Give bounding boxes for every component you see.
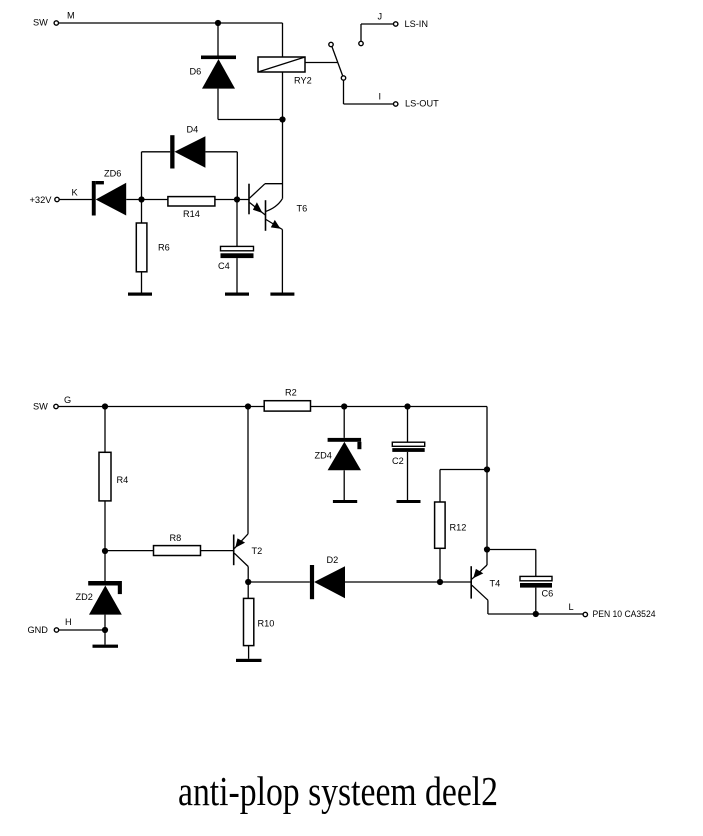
svg-text:ZD4: ZD4 (315, 451, 332, 461)
wire R4 top (104, 407, 106, 453)
capacitor C2 (392, 407, 424, 504)
resistor R8 (154, 546, 201, 556)
switch fixed contact (359, 41, 363, 45)
capacitor C6 (487, 550, 552, 615)
svg-text:LS-OUT: LS-OUT (405, 99, 439, 109)
svg-text:D6: D6 (190, 67, 202, 77)
svg-text:SW: SW (33, 18, 48, 28)
node R4 top (102, 403, 108, 409)
wire (236, 152, 238, 200)
wire (361, 23, 393, 25)
svg-text:R12: R12 (450, 523, 467, 533)
node R14/D4/C4/T6 junction (234, 196, 240, 202)
svg-text:GND: GND (28, 625, 49, 635)
resistor R2 (264, 401, 310, 411)
svg-text:K: K (72, 188, 79, 198)
node C2 top (404, 403, 410, 409)
svg-text:R10: R10 (258, 619, 275, 629)
switch pivot (341, 76, 345, 80)
resistor R10 (244, 598, 254, 645)
svg-text:PEN 10 CA3524: PEN 10 CA3524 (593, 609, 656, 619)
wire (360, 24, 362, 41)
terminal G (SW bottom) (54, 404, 58, 408)
wire (105, 550, 154, 552)
transistor T4 (471, 565, 488, 600)
wire (59, 22, 218, 24)
svg-text:T2: T2 (252, 546, 263, 556)
wire T4 collector (487, 600, 489, 614)
wire (248, 581, 310, 583)
wire (218, 22, 283, 24)
capacitor C4 (221, 246, 254, 258)
wire (218, 119, 283, 121)
terminal J (LS-IN) (394, 22, 398, 26)
wire (343, 80, 345, 104)
svg-text:C6: C6 (542, 589, 554, 599)
wire (282, 23, 284, 57)
transistor T6 (darlington) (249, 184, 283, 231)
wire T2 collector (247, 567, 249, 599)
switch arm contact (329, 42, 333, 46)
wire D4 branch left (141, 152, 143, 200)
svg-text:LS-IN: LS-IN (405, 19, 429, 29)
svg-text:SW: SW (33, 402, 48, 412)
wire (248, 646, 250, 659)
wire (345, 581, 471, 583)
svg-text:G: G (64, 395, 71, 405)
node R12/D2/T4 junction (437, 579, 443, 585)
svg-text:J: J (378, 12, 383, 22)
svg-text:C2: C2 (392, 456, 404, 466)
wire (126, 199, 168, 201)
resistor R12 (435, 502, 446, 548)
wire C4 branch (236, 200, 238, 247)
terminal K (+32V) (55, 197, 59, 201)
svg-text:D2: D2 (327, 555, 339, 565)
wire (217, 89, 219, 120)
node top rail junction (215, 20, 221, 26)
terminal H (GND) (54, 628, 58, 632)
svg-text:RY2: RY2 (294, 76, 312, 86)
ground T6 (270, 293, 294, 296)
wire (205, 151, 237, 153)
zener ZD4 (328, 407, 362, 504)
wire R12 branch (440, 469, 487, 471)
wire R6 branch (141, 200, 143, 224)
node T2/D2/R10 junction (245, 579, 251, 585)
ground R10 (236, 659, 262, 662)
node R12 branch (484, 466, 490, 472)
terminal M (SW top) (54, 21, 58, 25)
svg-text:R6: R6 (158, 243, 170, 253)
wire (217, 23, 219, 56)
diode D2 (310, 565, 345, 599)
svg-text:M: M (67, 11, 75, 21)
wire (344, 103, 394, 105)
resistor R6 (136, 223, 147, 272)
transistor T2 (234, 407, 249, 567)
svg-text:L: L (569, 602, 574, 612)
wire relay actuator (305, 62, 338, 64)
wire (439, 548, 441, 582)
wire T6 emitter (281, 230, 283, 293)
switch arm (332, 47, 343, 76)
wire (104, 501, 106, 581)
wire (439, 470, 441, 503)
wire (142, 151, 171, 153)
wire (141, 272, 143, 293)
svg-text:ZD2: ZD2 (76, 592, 93, 602)
svg-text:T6: T6 (297, 204, 308, 214)
node D6/relay junction (279, 116, 285, 122)
wire relay coil down (282, 72, 284, 199)
wire (104, 615, 106, 645)
ground R6 (128, 293, 152, 296)
wire (215, 199, 249, 201)
svg-text:H: H (65, 617, 72, 627)
zener ZD2 (88, 581, 122, 615)
svg-text:R14: R14 (183, 209, 200, 219)
svg-text:D4: D4 (187, 125, 199, 135)
svg-text:R4: R4 (117, 475, 129, 485)
wire (201, 550, 234, 552)
svg-text:C4: C4 (218, 261, 230, 271)
wire (59, 199, 92, 201)
ground C4 (225, 293, 249, 296)
wire right rail down (486, 407, 488, 566)
svg-text:T4: T4 (490, 579, 501, 589)
wire (236, 258, 238, 292)
wire (59, 629, 105, 631)
node ZD6/R14/D4/R6 junction (138, 196, 144, 202)
svg-text:R8: R8 (170, 533, 182, 543)
resistor R4 (99, 452, 111, 501)
wire (311, 406, 488, 408)
relay RY2 (258, 57, 305, 72)
svg-text:anti-plop systeem deel2: anti-plop systeem deel2 (178, 768, 498, 814)
resistor R14 (168, 197, 215, 206)
node ZD4 top (341, 403, 347, 409)
node T2 branch (245, 403, 251, 409)
svg-text:R2: R2 (285, 388, 297, 398)
diode D4 (170, 135, 205, 168)
diode D6 (201, 56, 236, 89)
ground ZD2 (93, 645, 119, 648)
node C6 branch (484, 546, 490, 552)
svg-text:ZD6: ZD6 (104, 169, 121, 179)
zener ZD6 (92, 181, 126, 216)
node C6 bottom (533, 611, 539, 617)
node GND junction (102, 627, 108, 633)
node R8/ZD2 junction (102, 548, 108, 554)
terminal L (PEN 10) (583, 612, 587, 616)
wire bottom rail (58, 406, 264, 408)
terminal I (LS-OUT) (394, 102, 398, 106)
wire output (488, 613, 583, 615)
svg-text:I: I (379, 92, 382, 102)
svg-text:+32V: +32V (30, 195, 53, 205)
